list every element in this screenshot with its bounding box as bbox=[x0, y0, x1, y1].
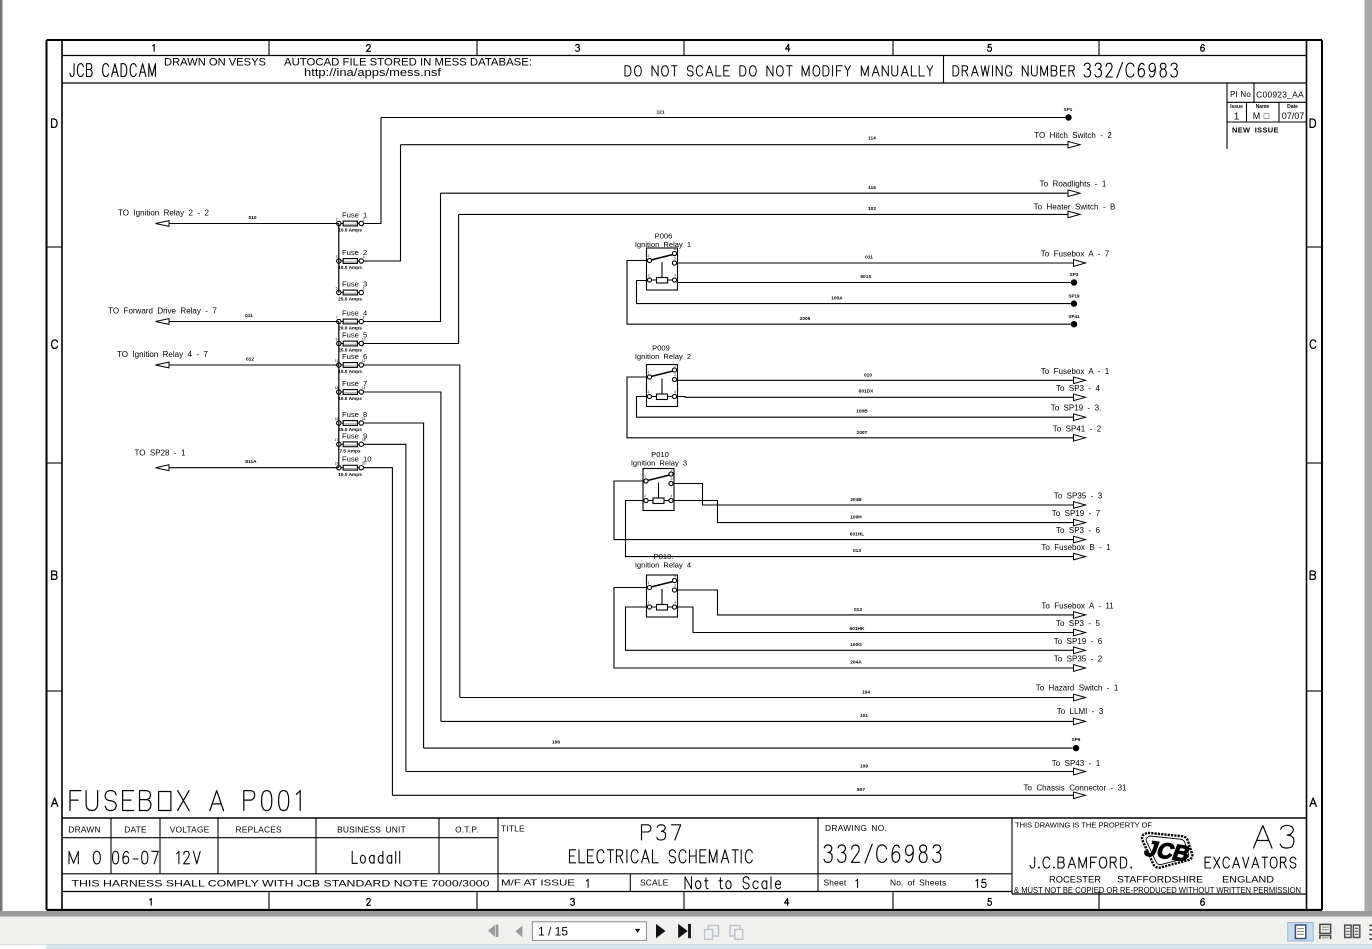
svg-text:BUSINESS UNIT: BUSINESS UNIT bbox=[337, 825, 406, 835]
svg-text:SP9: SP9 bbox=[1072, 737, 1081, 742]
svg-text:REPLACES: REPLACES bbox=[236, 825, 282, 835]
svg-text:102: 102 bbox=[868, 206, 876, 212]
svg-text:2: 2 bbox=[648, 274, 650, 278]
svg-text:5: 5 bbox=[674, 574, 676, 578]
svg-text:To SP3 - 4: To SP3 - 4 bbox=[1056, 384, 1101, 393]
svg-text:2: 2 bbox=[648, 390, 650, 394]
svg-text:TO Forward Drive Relay - 7: TO Forward Drive Relay - 7 bbox=[108, 307, 217, 316]
svg-text:VOLTAGE: VOLTAGE bbox=[170, 825, 210, 835]
svg-text:To SP35 - 3: To SP35 - 3 bbox=[1054, 492, 1103, 501]
svg-text:STAFFORDSHIRE: STAFFORDSHIRE bbox=[1117, 875, 1203, 886]
svg-text:1 / 15: 1 / 15 bbox=[538, 924, 568, 938]
svg-text:SCALE: SCALE bbox=[640, 878, 669, 888]
svg-text:4: 4 bbox=[363, 255, 365, 259]
svg-text:5: 5 bbox=[336, 286, 338, 290]
svg-text:THIS HARNESS SHALL COMPLY WITH: THIS HARNESS SHALL COMPLY WITH JCB STAND… bbox=[72, 879, 490, 889]
svg-text:116: 116 bbox=[868, 185, 876, 191]
svg-text:Date: Date bbox=[1287, 104, 1298, 110]
svg-text:TO Hitch Switch - 2: TO Hitch Switch - 2 bbox=[1034, 131, 1112, 140]
svg-text:5: 5 bbox=[674, 364, 676, 368]
svg-text:To Fusebox A - 7: To Fusebox A - 7 bbox=[1041, 250, 1110, 259]
svg-text:10.0 Amps: 10.0 Amps bbox=[338, 472, 362, 478]
svg-text:NEW ISSUE: NEW ISSUE bbox=[1232, 126, 1279, 135]
svg-text:To SP19 - 3.: To SP19 - 3. bbox=[1051, 404, 1102, 413]
svg-text:013: 013 bbox=[854, 607, 862, 613]
svg-text:Ignition Relay 2: Ignition Relay 2 bbox=[635, 352, 691, 361]
svg-text:http://ina/apps/mess.nsf: http://ina/apps/mess.nsf bbox=[304, 67, 442, 79]
svg-text:DATE: DATE bbox=[124, 825, 147, 835]
svg-text:15.0 Amps: 15.0 Amps bbox=[338, 369, 362, 375]
svg-text:To Heater Switch - B: To Heater Switch - B bbox=[1034, 203, 1116, 212]
svg-text:011: 011 bbox=[865, 255, 873, 261]
svg-text:O.T.P.: O.T.P. bbox=[455, 825, 478, 835]
svg-text:19: 19 bbox=[335, 462, 339, 466]
svg-text:121: 121 bbox=[656, 110, 664, 116]
svg-text:Name: Name bbox=[1256, 104, 1270, 110]
svg-text:012: 012 bbox=[246, 357, 254, 363]
svg-text:100H: 100H bbox=[850, 514, 862, 520]
svg-text:No. of Sheets: No. of Sheets bbox=[890, 878, 946, 888]
svg-text:1: 1 bbox=[648, 371, 650, 375]
svg-text:14: 14 bbox=[362, 386, 366, 390]
svg-text:100B: 100B bbox=[856, 409, 868, 415]
svg-text:Issue: Issue bbox=[1230, 104, 1243, 110]
svg-text:2005: 2005 bbox=[800, 316, 811, 322]
svg-text:To Chassis Connector - 31: To Chassis Connector - 31 bbox=[1023, 784, 1127, 793]
svg-text:ROCESTER: ROCESTER bbox=[1049, 875, 1101, 886]
svg-text:SP3: SP3 bbox=[1070, 272, 1079, 277]
svg-text:Ignition Relay 4: Ignition Relay 4 bbox=[635, 560, 691, 569]
svg-text:106: 106 bbox=[552, 740, 560, 746]
svg-text:4: 4 bbox=[674, 274, 676, 278]
svg-text:5: 5 bbox=[671, 468, 673, 472]
svg-text:601HL: 601HL bbox=[850, 531, 864, 537]
svg-text:TO Ignition Relay 4 - 7: TO Ignition Relay 4 - 7 bbox=[117, 350, 208, 359]
svg-text:TITLE: TITLE bbox=[501, 824, 525, 834]
svg-text:To Fusebox A - 1: To Fusebox A - 1 bbox=[1041, 367, 1110, 376]
svg-text:Fuse 10: Fuse 10 bbox=[342, 455, 371, 464]
svg-text:10.0 Amps: 10.0 Amps bbox=[338, 396, 362, 402]
svg-text:SP19: SP19 bbox=[1068, 293, 1080, 298]
svg-text:To SP35 - 2: To SP35 - 2 bbox=[1054, 655, 1103, 664]
svg-text:To SP19 - 7: To SP19 - 7 bbox=[1052, 509, 1101, 518]
svg-text:15: 15 bbox=[335, 417, 339, 421]
svg-text:7: 7 bbox=[336, 315, 338, 319]
svg-text:3: 3 bbox=[674, 257, 676, 261]
svg-text:THIS DRAWING IS THE PROPERTY O: THIS DRAWING IS THE PROPERTY OF bbox=[1015, 823, 1152, 830]
svg-text:12: 12 bbox=[362, 359, 366, 363]
svg-text:To Hazard Switch - 1: To Hazard Switch - 1 bbox=[1036, 683, 1119, 692]
svg-text:4: 4 bbox=[674, 390, 676, 394]
svg-text:601X: 601X bbox=[860, 274, 872, 280]
svg-text:To SP3 - 6: To SP3 - 6 bbox=[1056, 526, 1101, 535]
svg-text:Ignition Relay 3: Ignition Relay 3 bbox=[631, 458, 687, 467]
svg-text:100A: 100A bbox=[831, 296, 843, 302]
svg-text:601DX: 601DX bbox=[859, 389, 874, 395]
svg-text:To SP41 - 2: To SP41 - 2 bbox=[1053, 424, 1102, 433]
svg-text:1: 1 bbox=[644, 475, 646, 479]
svg-text:1: 1 bbox=[648, 581, 650, 585]
svg-text:9: 9 bbox=[336, 337, 338, 341]
svg-text:17: 17 bbox=[335, 438, 339, 442]
svg-text:013: 013 bbox=[853, 548, 861, 554]
svg-text:1: 1 bbox=[648, 254, 650, 258]
svg-text:010: 010 bbox=[248, 215, 256, 221]
svg-text:6: 6 bbox=[363, 286, 365, 290]
svg-text:C00923_AA: C00923_AA bbox=[1256, 90, 1304, 100]
svg-text:010: 010 bbox=[864, 372, 872, 378]
svg-text:DRAWN: DRAWN bbox=[68, 825, 100, 835]
svg-text:3: 3 bbox=[674, 373, 676, 377]
svg-text:4: 4 bbox=[671, 494, 673, 498]
svg-text:To Fusebox B - 1: To Fusebox B - 1 bbox=[1041, 543, 1111, 552]
svg-text:To LLMI - 3: To LLMI - 3 bbox=[1057, 707, 1104, 716]
svg-text:To SP19 - 6: To SP19 - 6 bbox=[1054, 637, 1103, 646]
svg-text:204A: 204A bbox=[850, 660, 862, 666]
svg-text:TO Ignition Relay 2 - 2: TO Ignition Relay 2 - 2 bbox=[118, 209, 209, 218]
svg-text:811A: 811A bbox=[245, 459, 257, 465]
svg-text:3: 3 bbox=[336, 255, 338, 259]
svg-text:DRAWN ON VESYS: DRAWN ON VESYS bbox=[164, 57, 266, 69]
svg-text:To SP43 - 1: To SP43 - 1 bbox=[1052, 759, 1101, 768]
svg-text:8: 8 bbox=[363, 315, 365, 319]
svg-text:TO SP28 - 1: TO SP28 - 1 bbox=[135, 449, 186, 458]
svg-text:7.5 Amps: 7.5 Amps bbox=[339, 449, 360, 455]
svg-text:1: 1 bbox=[1234, 112, 1240, 123]
svg-text:To SP3 - 5: To SP3 - 5 bbox=[1056, 619, 1101, 628]
svg-text:114: 114 bbox=[868, 136, 876, 142]
svg-text:200T: 200T bbox=[857, 430, 868, 436]
svg-text:1: 1 bbox=[336, 217, 338, 221]
svg-text:204B: 204B bbox=[850, 497, 862, 503]
svg-text:10.0 Amps: 10.0 Amps bbox=[338, 265, 362, 271]
svg-text:SP41: SP41 bbox=[1068, 314, 1080, 319]
svg-text:2: 2 bbox=[648, 601, 650, 605]
svg-text:18: 18 bbox=[362, 438, 366, 442]
svg-text:101: 101 bbox=[860, 713, 868, 719]
svg-text:100G: 100G bbox=[850, 642, 862, 648]
svg-text:07/07: 07/07 bbox=[1282, 111, 1305, 121]
svg-text:104: 104 bbox=[862, 689, 870, 695]
svg-text:601HK: 601HK bbox=[850, 626, 865, 632]
svg-text:4: 4 bbox=[674, 601, 676, 605]
svg-text:109: 109 bbox=[860, 763, 868, 769]
svg-text:2: 2 bbox=[363, 217, 365, 221]
svg-text:25.0 Amps: 25.0 Amps bbox=[338, 297, 362, 303]
svg-text:DRAWING NO.: DRAWING NO. bbox=[825, 823, 887, 833]
svg-text:10: 10 bbox=[362, 337, 366, 341]
svg-text:& MUST NOT BE COPIED OR RE-PRO: & MUST NOT BE COPIED OR RE-PRODUCED WITH… bbox=[1014, 886, 1301, 895]
svg-text:3: 3 bbox=[674, 584, 676, 588]
svg-text:PI No: PI No bbox=[1230, 90, 1251, 99]
svg-text:20: 20 bbox=[362, 462, 366, 466]
svg-text:13: 13 bbox=[335, 386, 339, 390]
svg-text:ENGLAND: ENGLAND bbox=[1222, 875, 1274, 886]
svg-text:10.0 Amps: 10.0 Amps bbox=[338, 228, 362, 234]
svg-text:3: 3 bbox=[671, 477, 673, 481]
svg-text:Sheet: Sheet bbox=[824, 878, 847, 888]
svg-text:SP1: SP1 bbox=[1064, 107, 1073, 112]
svg-text:11: 11 bbox=[335, 359, 339, 363]
svg-text:2: 2 bbox=[644, 494, 646, 498]
svg-text:011: 011 bbox=[245, 313, 253, 319]
svg-text:Ignition Relay 1: Ignition Relay 1 bbox=[635, 240, 691, 249]
svg-text:M □: M □ bbox=[1253, 111, 1270, 121]
svg-text:To Roadlights - 1: To Roadlights - 1 bbox=[1040, 179, 1107, 188]
svg-text:M/F AT ISSUE: M/F AT ISSUE bbox=[501, 878, 576, 888]
svg-text:To Fusebox A - 11: To Fusebox A - 11 bbox=[1041, 601, 1114, 610]
svg-text:807: 807 bbox=[857, 787, 865, 793]
svg-text:16: 16 bbox=[362, 417, 366, 421]
